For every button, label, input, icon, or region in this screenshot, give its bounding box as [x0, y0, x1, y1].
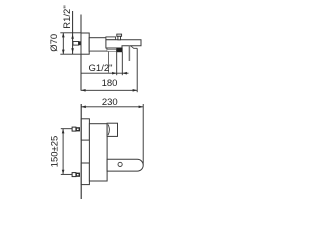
svg-text:180: 180 — [102, 78, 118, 89]
svg-text:G1/2": G1/2" — [89, 63, 113, 74]
svg-text:R1/2": R1/2" — [62, 5, 73, 28]
svg-text:150±25: 150±25 — [49, 136, 60, 168]
svg-text:Ø70: Ø70 — [49, 34, 60, 52]
svg-text:230: 230 — [102, 97, 118, 108]
